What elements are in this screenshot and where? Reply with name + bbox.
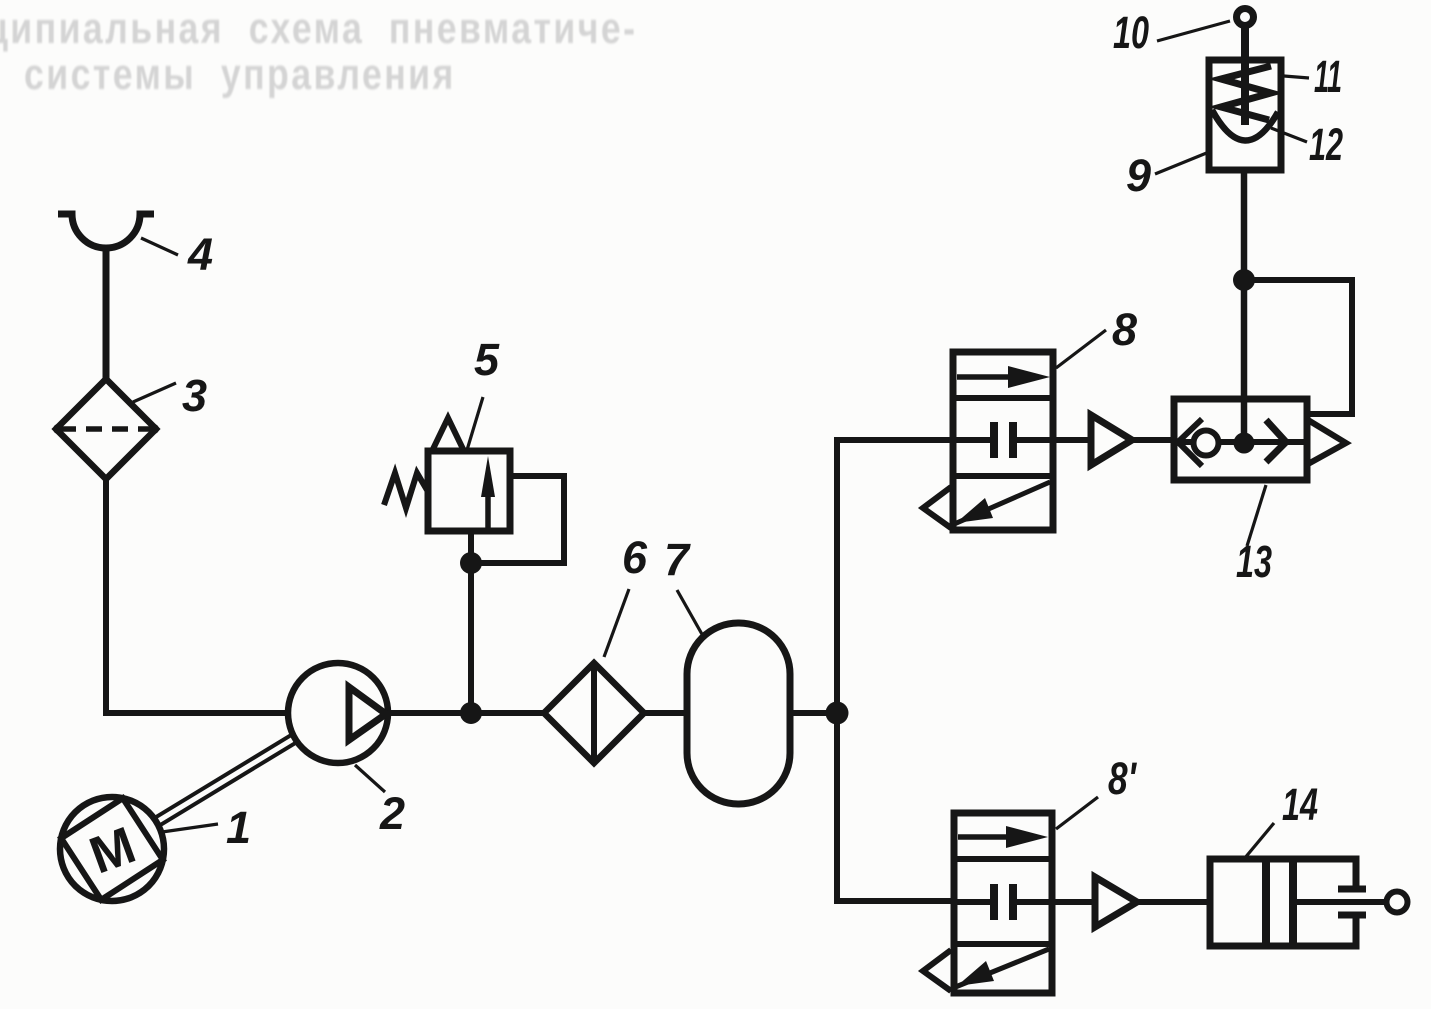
svg-text:3: 3	[182, 370, 207, 421]
svg-text:6: 6	[622, 532, 648, 583]
svg-text:11: 11	[1314, 51, 1342, 102]
svg-text:8': 8'	[1108, 753, 1137, 804]
svg-text:4: 4	[187, 229, 213, 280]
svg-text:12: 12	[1309, 119, 1343, 170]
svg-text:10: 10	[1113, 7, 1149, 58]
svg-text:14: 14	[1282, 779, 1318, 830]
svg-text:13: 13	[1236, 536, 1272, 587]
svg-text:7: 7	[664, 534, 691, 585]
svg-text:9: 9	[1126, 150, 1151, 201]
svg-text:8: 8	[1112, 304, 1137, 355]
svg-text:1: 1	[226, 802, 251, 853]
svg-text:5: 5	[474, 334, 500, 385]
svg-text:2: 2	[379, 788, 405, 839]
